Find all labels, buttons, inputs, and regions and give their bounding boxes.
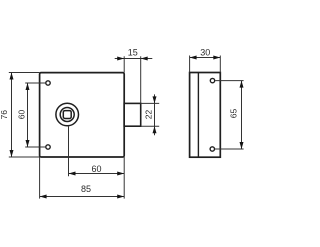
svg-text:65: 65 xyxy=(229,109,239,119)
side view hole top xyxy=(210,78,214,82)
dimension 15 line with outside arrows xyxy=(115,57,153,61)
dimension 85 line with arrows xyxy=(40,195,125,199)
spindle square hole xyxy=(63,111,71,119)
dimension 76 extension lines xyxy=(9,73,40,158)
dimension 30 line with arrows xyxy=(190,56,221,60)
spindle boss outer circle xyxy=(56,103,79,126)
dimension 60 left line with arrows xyxy=(26,83,30,147)
dimension 60 bottom line with arrows xyxy=(69,172,125,176)
dimension 30 extension lines xyxy=(190,56,221,73)
svg-text:60: 60 xyxy=(91,164,101,174)
fixing hole top-left xyxy=(46,81,50,85)
dimension 22 line with outside arrows xyxy=(153,94,157,135)
dimension 65 line with arrows xyxy=(240,81,244,149)
svg-text:15: 15 xyxy=(128,48,138,58)
side view hole bottom xyxy=(210,147,214,151)
fixing hole bottom-left xyxy=(46,145,50,149)
dimension 65 extension lines xyxy=(215,81,244,149)
spindle axis extension line xyxy=(68,126,70,176)
plate right edge bottom extension line xyxy=(123,157,125,199)
front view lock case outline xyxy=(40,73,125,157)
dimension 15 extension lines xyxy=(124,56,141,103)
svg-text:60: 60 xyxy=(17,110,27,120)
svg-text:85: 85 xyxy=(81,184,91,194)
side view faceplate line xyxy=(197,73,199,158)
side view body outline xyxy=(190,73,221,158)
dimension 76 line with arrows xyxy=(10,73,14,158)
svg-text:22: 22 xyxy=(143,110,153,120)
dimension 60 left extension lines xyxy=(25,83,46,147)
dimension 22 extension lines xyxy=(141,103,160,126)
svg-text:30: 30 xyxy=(200,48,210,58)
spindle boss inner circle xyxy=(60,108,74,122)
plate left edge bottom extension line xyxy=(39,157,41,199)
latch bolt xyxy=(124,103,141,126)
svg-text:76: 76 xyxy=(0,110,9,120)
